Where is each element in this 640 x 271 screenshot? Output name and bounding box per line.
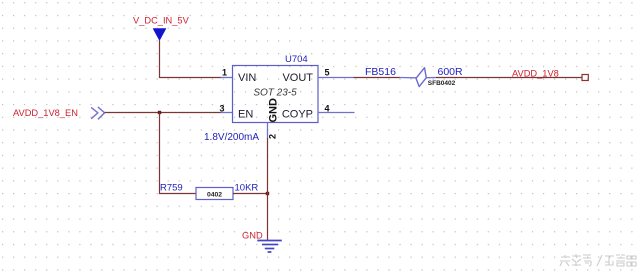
wire resistor to GND net bbox=[233, 193, 268, 195]
svg-text:AVDD_1V8: AVDD_1V8 bbox=[512, 69, 559, 79]
svg-text:1.8V/200mA: 1.8V/200mA bbox=[204, 132, 259, 143]
pin 4 COYP of U704 bbox=[318, 104, 355, 114]
svg-text:V_DC_IN_5V: V_DC_IN_5V bbox=[133, 16, 190, 26]
pin 1 VIN of U704 bbox=[221, 68, 234, 78]
wire junction down from EN wire to resistor bbox=[160, 113, 197, 194]
terminal square AVDD_1V8 bbox=[582, 75, 588, 81]
svg-text:1: 1 bbox=[222, 68, 227, 78]
pin 3 EN of U704 bbox=[219, 104, 233, 114]
power port V_DC_IN_5V bbox=[133, 16, 190, 41]
svg-text:U704: U704 bbox=[285, 54, 308, 65]
wire bead to AVDD_1V8 terminal bbox=[436, 77, 582, 79]
svg-text:COYP: COYP bbox=[282, 109, 313, 121]
svg-text:3: 3 bbox=[219, 104, 224, 114]
ground symbol bbox=[257, 241, 282, 253]
svg-text:600R: 600R bbox=[438, 66, 464, 78]
svg-text:SOT 23-5: SOT 23-5 bbox=[253, 88, 297, 99]
svg-text:GND: GND bbox=[268, 98, 280, 123]
svg-text:4: 4 bbox=[325, 104, 330, 114]
wire pin5 to ferrite bead bbox=[354, 77, 401, 79]
wire pin2 down to ground bbox=[267, 138, 269, 241]
resistor R759 bbox=[160, 183, 258, 200]
pin 2 GND of U704 bbox=[268, 123, 278, 140]
wire from port to pin 3 EN bbox=[105, 112, 222, 114]
pin 5 VOUT of U704 bbox=[318, 68, 354, 78]
port AVDD_1V8_EN bbox=[13, 107, 105, 119]
svg-text:GND: GND bbox=[242, 231, 263, 241]
svg-text:0402: 0402 bbox=[207, 191, 222, 198]
svg-text:5: 5 bbox=[325, 68, 330, 78]
svg-text:2: 2 bbox=[268, 134, 278, 139]
svg-text:R759: R759 bbox=[160, 183, 183, 194]
svg-text:SFB0402: SFB0402 bbox=[428, 80, 456, 87]
svg-text:AVDD_1V8_EN: AVDD_1V8_EN bbox=[13, 108, 78, 118]
svg-text:EN: EN bbox=[238, 109, 253, 121]
svg-text:VIN: VIN bbox=[238, 72, 256, 84]
op-amp regulator U704 body bbox=[233, 54, 319, 123]
wire from power symbol down to VIN net bbox=[160, 41, 222, 78]
svg-text:10KR: 10KR bbox=[235, 183, 259, 194]
svg-text:FB516: FB516 bbox=[365, 66, 396, 78]
junction on GND vertical wire bbox=[266, 192, 269, 195]
ferrite bead FB516 bbox=[365, 66, 463, 87]
junction on EN wire bbox=[158, 111, 161, 114]
svg-text:VOUT: VOUT bbox=[282, 72, 313, 84]
